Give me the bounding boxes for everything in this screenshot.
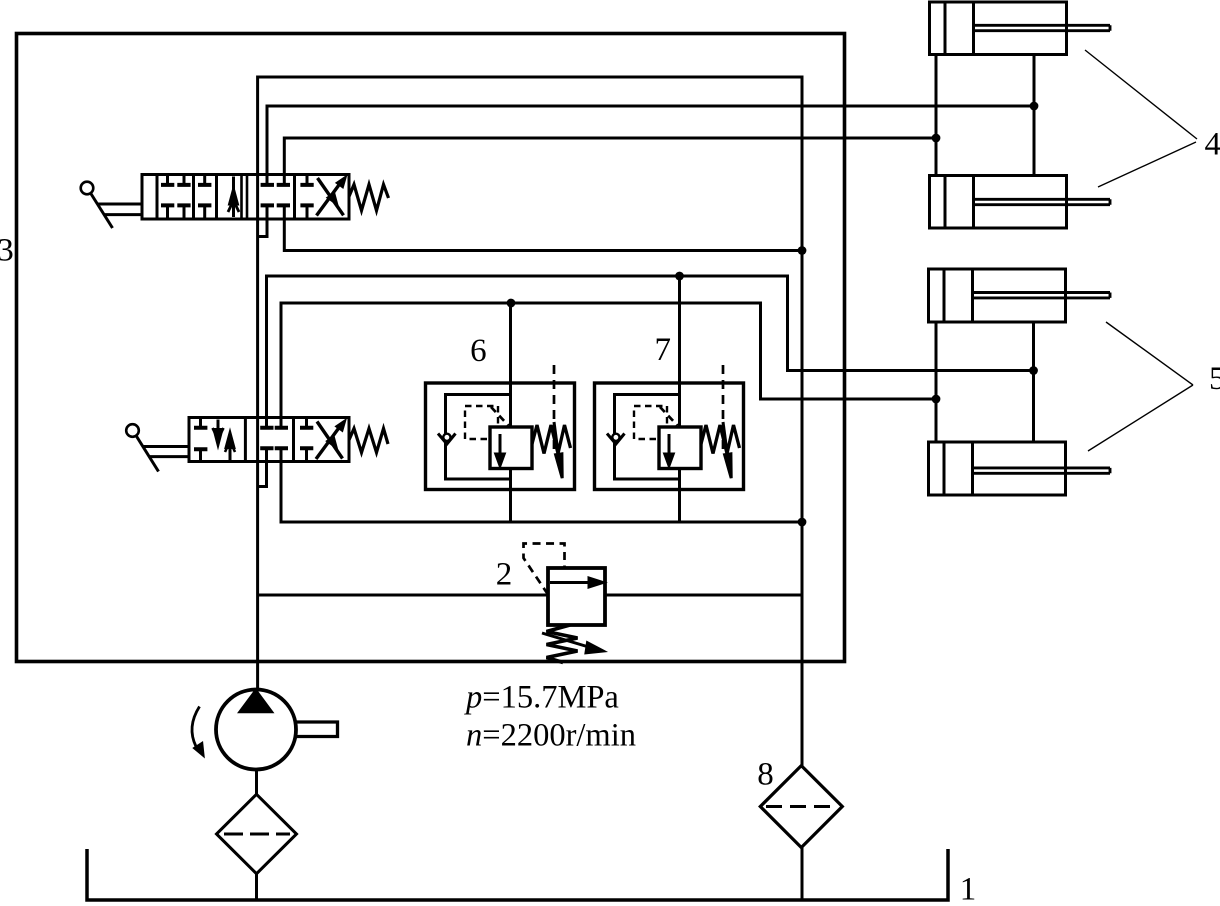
V2 crossed arrows X (316, 422, 343, 460)
V1 manual lever (81, 182, 94, 195)
valve V2 (lower directional control valve) (126, 418, 388, 472)
V1 cell4 up arrow (232, 177, 235, 218)
cylinder 4b (930, 176, 1111, 229)
filter 8 (760, 766, 842, 848)
svg-text:6: 6 (470, 333, 487, 369)
pump outlet port (296, 722, 337, 737)
FCV6 pilot dashed vertical (553, 365, 556, 449)
wire valve1 bottom stub to P line (258, 219, 267, 237)
V1 body (142, 175, 349, 220)
svg-text:p=15.7MPa: p=15.7MPa (464, 680, 619, 716)
manifold block 3 boundary (17, 34, 845, 662)
flow control valve 7 (595, 365, 744, 490)
svg-text:4: 4 (1205, 127, 1220, 163)
FCV6 pilot dashed diagonal (491, 407, 509, 426)
cylinder 5b (929, 442, 1111, 495)
RV2 flow arrow (550, 581, 589, 584)
pump triangle (240, 691, 272, 712)
pointer lines label 4 (1085, 50, 1197, 187)
FCV6 throttle box (490, 427, 532, 469)
V2 cell1 down arrow (217, 420, 220, 441)
wire cylinder group 5 left vertical (935, 322, 938, 442)
wire valve1 port B to cylinder group 4 lower (y=138) (284, 138, 936, 175)
FCV6 outer enclosure (426, 383, 575, 490)
wire valve 7 center line (678, 276, 681, 522)
relief valve 2 (524, 544, 606, 663)
wire cylinder group 4 right vertical (1033, 55, 1036, 176)
FCV6 adjust arrow (554, 422, 559, 456)
FCV6 spring (532, 425, 571, 454)
RV2 body box (548, 568, 605, 625)
wire P supply: pump riser, top header y=77, return drop x=802 (258, 77, 802, 766)
FCV6 check valve (438, 434, 456, 445)
V1 crossed arrows X (317, 178, 344, 216)
FCV7 throttle box (659, 427, 701, 469)
FCV7 adjust arrow (723, 422, 728, 456)
suction filter (217, 794, 297, 873)
V1 return spring (349, 185, 389, 211)
V2 body (189, 418, 349, 462)
FCV7 spring (701, 425, 740, 454)
V2 manual lever (126, 424, 139, 437)
wire suction filter to tank (255, 874, 258, 900)
svg-text:3: 3 (0, 232, 14, 268)
RV2 adjust arrow (542, 633, 592, 648)
wire valve 6 center line (509, 303, 512, 522)
svg-text:5: 5 (1209, 361, 1220, 397)
FCV7 pilot dashed diagonal (660, 407, 678, 426)
wire relief valve line (y=594.6) (258, 594, 802, 597)
V1 right cell blocked port (T symbols) (306, 175, 309, 220)
wire valve1 port A to cylinder group 4 upper (y=106) (267, 106, 1034, 175)
V2 center cell blocked ports (T symbols) (267, 418, 282, 462)
FCV7 outer enclosure (595, 383, 744, 490)
V2 return spring (349, 429, 388, 453)
FCV6 pilot dashed box (465, 406, 498, 439)
FCV7 pilot dashed vertical (722, 365, 725, 449)
FCV6 throttle down arrow (499, 434, 502, 459)
FCV7 bypass inner box (615, 395, 680, 480)
FCV7 check valve (607, 434, 625, 445)
pump (192, 690, 338, 770)
V1 center cell blocked ports (T symbols) (267, 175, 284, 220)
V1 cell3 closed port (T symbols) (203, 175, 206, 220)
wire valve1 tank port to return (y=250.5) (284, 219, 802, 251)
wire cylinder group 5 right vertical (1032, 322, 1035, 442)
svg-text:7: 7 (655, 332, 672, 368)
cylinder 4a (930, 2, 1111, 55)
V2 cell1 up arrow (229, 437, 232, 461)
wire cylinder group 4 left vertical (935, 55, 938, 176)
V2 cell1 closed port (T symbols) (199, 418, 202, 462)
wire valve2 port A to cylinder group 5 via valve 7 (y=276) (267, 276, 1034, 418)
FCV6 bypass inner box (446, 395, 511, 480)
RV2 pilot dashed line (524, 544, 565, 595)
flow control valve 6 (426, 365, 575, 490)
FCV7 throttle down arrow (668, 434, 671, 459)
svg-text:1: 1 (960, 872, 977, 906)
wire valve2 bottom stub to P line (258, 462, 267, 487)
valve V1 (upper directional control valve) (81, 175, 389, 229)
svg-text:8: 8 (757, 757, 774, 793)
V1 cell dividers (157, 175, 295, 220)
V2 cell dividers (245, 418, 293, 462)
svg-text:2: 2 (496, 556, 513, 592)
pump rotation arrow (192, 707, 200, 747)
RV2 spring (547, 625, 578, 663)
svg-text:n=2200r/min: n=2200r/min (466, 718, 636, 754)
wire return below filter 8 to tank (801, 848, 804, 901)
V1 cell2 closed ports (T symbols) (168, 175, 185, 220)
V2 right cell blocked port (T symbols) (305, 418, 308, 462)
tank 1 (87, 849, 948, 900)
FCV7 pilot dashed box (634, 406, 667, 439)
wire pump to suction filter (255, 770, 258, 795)
pump circle (216, 690, 296, 770)
wire valve2 port B to cylinder group 5 via valve 6 (y=303) (281, 303, 936, 418)
wire valve2/6/7 tank line (y=522) (281, 462, 802, 523)
cylinder 5a (929, 269, 1111, 322)
junction node dots (507, 102, 1039, 527)
pointer lines label 5 (1088, 322, 1193, 451)
